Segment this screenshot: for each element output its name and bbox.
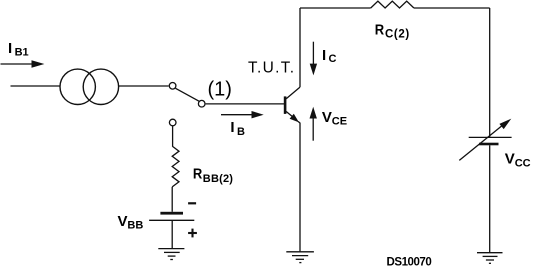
svg-text:T.U.T.: T.U.T. [248, 60, 295, 77]
svg-text:CE: CE [332, 115, 347, 127]
svg-text:I: I [8, 40, 12, 57]
arrow IB1 [1, 60, 45, 67]
arrow VCC adjustable [459, 119, 511, 161]
transistor Q1 (T.U.T.) [284, 87, 300, 123]
svg-text:R: R [375, 21, 385, 38]
svg-text:R: R [193, 166, 203, 183]
ground emitter [286, 252, 314, 263]
svg-text:I: I [230, 119, 234, 136]
battery VCC [469, 137, 512, 145]
wire base [206, 103, 284, 105]
svg-text:C: C [329, 53, 337, 65]
svg-text:DS10070: DS10070 [387, 257, 432, 268]
label VCE [322, 109, 347, 128]
wire RBB bottom [171, 187, 173, 212]
wire VBB bottom [171, 220, 173, 248]
label IB [230, 119, 245, 138]
resistor RC(2) [371, 1, 414, 8]
wire VCC bottom vertical [489, 145, 491, 252]
wire collector vertical [299, 8, 301, 87]
svg-text:I: I [322, 47, 326, 64]
label minus [188, 202, 196, 204]
label RC(2) [375, 21, 410, 40]
label IC [322, 47, 337, 65]
ground VBB [158, 249, 184, 260]
svg-text:B1: B1 [15, 47, 29, 59]
label VBB [118, 213, 144, 232]
label IB1 [8, 40, 29, 59]
battery VBB [149, 212, 194, 221]
svg-text:CC: CC [515, 157, 531, 169]
switch S1 [169, 83, 205, 126]
resistor RBB(2) [172, 146, 179, 187]
arrow IC [310, 42, 317, 76]
wire input [11, 85, 61, 87]
label RBB(2) [193, 166, 233, 185]
svg-text:BB(2): BB(2) [203, 173, 233, 185]
svg-text:C(2): C(2) [385, 29, 410, 41]
svg-text:V: V [505, 151, 515, 168]
svg-text:V: V [118, 213, 128, 230]
wire to switch [118, 85, 169, 87]
svg-text:B: B [237, 126, 245, 138]
label plus [188, 229, 197, 238]
arrow IB [221, 111, 264, 118]
wire VCC top vertical [489, 8, 491, 137]
current source G1 [60, 69, 119, 104]
svg-text:BB: BB [127, 219, 143, 231]
svg-text:V: V [322, 109, 332, 126]
wire RBB top [172, 126, 174, 146]
ground VCC [477, 253, 503, 264]
label VCC [505, 151, 531, 170]
wire top right of resistor [414, 7, 490, 9]
svg-text:(1): (1) [208, 79, 232, 101]
wire emitter vertical [299, 123, 301, 252]
wire top left of resistor [300, 7, 371, 9]
arrow VCE [310, 107, 317, 141]
